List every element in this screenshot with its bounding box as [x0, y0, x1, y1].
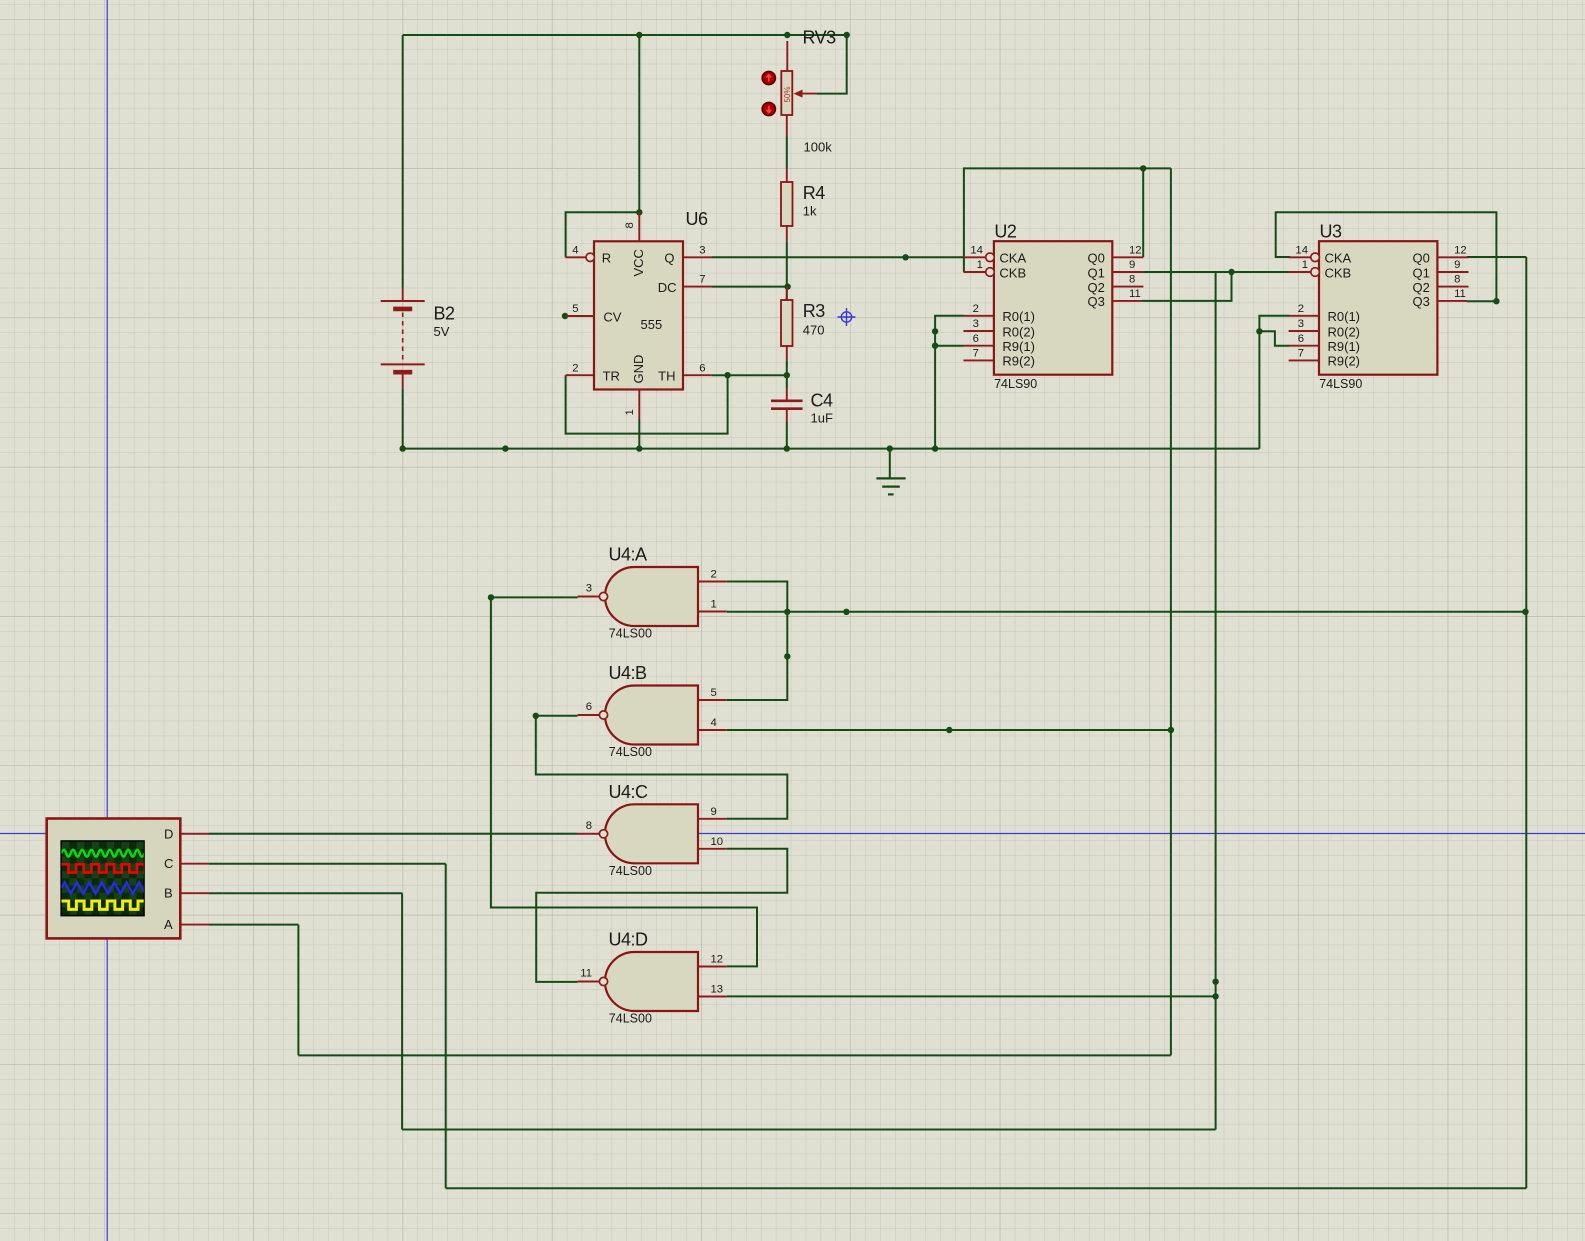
wire R3 bottom to TH node: [786, 360, 788, 375]
junction V7 upper: [1212, 979, 1218, 985]
wire scope A lead: [209, 924, 298, 926]
svg-text:2: 2: [572, 362, 578, 374]
wire scope C lead: [209, 863, 446, 865]
sheet origin axis horizontal: [0, 833, 1585, 835]
wire 555 reset loop: [566, 212, 640, 257]
svg-text:R0(2): R0(2): [1002, 324, 1035, 339]
svg-text:U4:A: U4:A: [609, 545, 648, 565]
wire U4A pin1 row: [727, 611, 1526, 613]
svg-text:1k: 1k: [803, 204, 817, 219]
svg-text:1: 1: [624, 409, 636, 415]
U4:B pin 5: [698, 699, 727, 701]
U3 pin 3 R0(2): [1289, 330, 1319, 332]
wire TH node to C4: [786, 375, 788, 388]
NAND gate U4:B 74LS00 body: [605, 686, 698, 745]
junction bus U6 GND: [636, 445, 642, 451]
svg-text:6: 6: [586, 701, 592, 713]
RV3 decrement button: [762, 102, 775, 115]
junction V7 pin13: [1212, 993, 1218, 999]
junction U2 Q0 drop: [1140, 165, 1146, 171]
junction Q wire: [902, 254, 908, 260]
junction U4B pin6: [533, 713, 539, 719]
svg-text:R0(2): R0(2): [1328, 324, 1361, 339]
screen checkerboard: [62, 842, 144, 915]
potentiometer RV3: [786, 41, 789, 137]
U4:D input pin 11: [578, 981, 600, 983]
svg-text:74LS00: 74LS00: [609, 627, 652, 641]
U2 pin 8 Q2: [1112, 286, 1143, 288]
svg-text:Q3: Q3: [1413, 294, 1430, 309]
svg-text:B: B: [164, 886, 173, 901]
svg-text:4: 4: [711, 717, 717, 729]
svg-text:Q2: Q2: [1413, 280, 1430, 295]
svg-text:12: 12: [711, 954, 724, 966]
junction DC node: [784, 283, 790, 289]
U3 pin 12 Q0: [1437, 256, 1468, 258]
svg-text:12: 12: [1129, 244, 1142, 256]
svg-text:11: 11: [580, 968, 592, 980]
screen trace blue triangle: [62, 882, 149, 893]
U2 pin 11 Q3: [1112, 300, 1142, 302]
svg-text:R3: R3: [803, 301, 825, 321]
junction pin1 row V8: [1522, 609, 1528, 615]
junction RV3 corner: [844, 32, 850, 38]
U3 pin 9 Q1: [1437, 271, 1468, 273]
svg-text:R4: R4: [803, 183, 825, 203]
U2 pin 1 CKB: [964, 271, 986, 273]
U4:D pin 12: [698, 966, 727, 968]
svg-text:1uF: 1uF: [811, 411, 833, 426]
svg-text:7: 7: [973, 348, 979, 360]
U6 pin 1 GND: [638, 390, 640, 420]
svg-text:74LS00: 74LS00: [609, 864, 652, 878]
wire U2 Q1 to U3 CKB: [1143, 271, 1310, 273]
svg-text:8: 8: [624, 222, 636, 228]
U4:C pin 9: [698, 818, 727, 820]
U3 pin 14 CKA: [1289, 256, 1311, 258]
junction bus U2 reset: [932, 445, 938, 451]
node CV stub end: [562, 313, 568, 319]
battery B2: [381, 288, 425, 389]
junction VCC/RV3: [784, 32, 790, 38]
junction bus ground: [887, 445, 893, 451]
svg-text:2: 2: [711, 569, 717, 581]
svg-text:Q0: Q0: [1087, 251, 1104, 266]
wire 555 DC node: [712, 286, 788, 288]
svg-text:R9(1): R9(1): [1002, 339, 1035, 354]
screen trace red square: [62, 864, 160, 872]
svg-text:3: 3: [973, 318, 979, 330]
wire U3 R9(1) jog: [1259, 331, 1289, 345]
wire U2 R9(1) jog: [935, 345, 963, 347]
svg-text:GND: GND: [631, 355, 646, 384]
junction U2 Q1/U3 CKB: [1228, 269, 1234, 275]
U4:B pin 4: [698, 729, 727, 731]
NAND gate U4:A 74LS00 body: [605, 567, 698, 626]
U2 pin 3 R0(2): [964, 330, 994, 332]
svg-text:CV: CV: [603, 309, 621, 324]
svg-text:RV3: RV3: [803, 28, 837, 48]
U6 pin 4 R: [566, 256, 586, 258]
wire ground bus: [403, 448, 1260, 450]
U2 pin 2 R0(1): [964, 315, 994, 317]
screen trace yellow square: [62, 901, 162, 909]
U2 pin 6 R9(1): [964, 345, 994, 347]
svg-text:3: 3: [1298, 318, 1304, 330]
svg-text:Q3: Q3: [1087, 294, 1104, 309]
junction U2 R0(2): [932, 328, 938, 334]
svg-text:7: 7: [1298, 348, 1304, 360]
wire scope C row: [446, 1187, 1527, 1189]
IC U2 74LS90 body: [994, 241, 1112, 375]
U4:C pin 10: [698, 848, 727, 850]
svg-text:12: 12: [1454, 244, 1467, 256]
svg-text:TH: TH: [658, 369, 675, 384]
U6 pin 6 TH: [683, 374, 712, 376]
wire battery negative to bus: [402, 388, 404, 448]
svg-text:1: 1: [1302, 259, 1308, 271]
svg-text:U4:B: U4:B: [609, 663, 648, 683]
U3 pin 8 Q2: [1437, 286, 1468, 288]
junction U3 reset: [1256, 328, 1262, 334]
wire 555 VCC drop: [638, 35, 640, 212]
U4:C input pin 8: [578, 833, 600, 835]
wire U4C pin10 to U4D pin11: [536, 849, 787, 982]
junction bus mid: [502, 445, 508, 451]
svg-text:470: 470: [803, 323, 825, 338]
wire U2 reset net: [935, 316, 963, 449]
svg-text:8: 8: [1454, 274, 1460, 286]
IC U6 555 timer body: [594, 241, 683, 389]
U4:B input pin 6: [578, 714, 600, 716]
oscilloscope pins D C B A: [180, 834, 209, 925]
wire RV3 wiper loop: [817, 35, 847, 94]
svg-text:VCC: VCC: [631, 249, 646, 276]
svg-text:14: 14: [970, 244, 983, 256]
U4:A pin 1: [698, 611, 727, 613]
U6 pin 5 CV: [566, 315, 594, 317]
U3 pin 11 Q3: [1437, 300, 1467, 302]
svg-text:D: D: [164, 827, 173, 842]
wire U4A pin3 lead: [491, 596, 578, 598]
svg-text:CKA: CKA: [1325, 251, 1352, 266]
svg-text:CKB: CKB: [1325, 265, 1352, 280]
svg-text:50%: 50%: [783, 86, 792, 102]
svg-text:7: 7: [699, 274, 705, 286]
junction pin1 row mid: [843, 609, 849, 615]
wire R4 to R3 node: [786, 242, 788, 300]
wire 555 Q to U2 CKA: [712, 256, 964, 258]
svg-text:C: C: [164, 856, 173, 871]
svg-text:C4: C4: [811, 391, 833, 411]
U6 pin 2 TR: [566, 374, 594, 376]
resistor R3: [786, 287, 788, 361]
wire scope B drop: [401, 893, 403, 1129]
junction TR-TH: [724, 372, 730, 378]
svg-text:100k: 100k: [804, 140, 833, 155]
wire U2 Q3 jog: [1142, 272, 1232, 301]
U4:A input pin 3: [578, 596, 600, 598]
U2 pin 14 CKA: [964, 256, 986, 258]
svg-text:B2: B2: [434, 304, 456, 324]
capacitor C4: [786, 388, 788, 422]
resistor R4: [786, 168, 788, 241]
junction TH-R3-C4: [784, 372, 790, 378]
svg-text:9: 9: [1129, 259, 1135, 271]
U6 pin 3 Q: [683, 256, 712, 258]
wire U4D pin13 row: [727, 995, 1216, 997]
svg-text:U2: U2: [994, 222, 1016, 242]
svg-text:TR: TR: [603, 369, 620, 384]
wire scope D lead to U4C pin8: [209, 833, 578, 835]
wire 555 TR-TH loop: [566, 375, 728, 433]
wire U2 CKB top loop: [964, 168, 1171, 272]
svg-text:2: 2: [1298, 303, 1304, 315]
wire net V6 vertical to A row: [1170, 168, 1172, 1055]
wire U4B pin6 lead: [536, 715, 578, 717]
wire U4B pin4 row: [727, 729, 1171, 731]
svg-text:R9(2): R9(2): [1328, 354, 1361, 369]
NAND gate U4:D 74LS00 body: [605, 952, 698, 1011]
junction U2 R9(1): [932, 343, 938, 349]
svg-text:Q1: Q1: [1087, 265, 1104, 280]
svg-text:6: 6: [973, 333, 979, 345]
wire C4 to ground bus: [786, 422, 788, 449]
IC U3 74LS90 body: [1319, 241, 1437, 375]
wire U4B pin6 to U4C pin9: [536, 716, 788, 819]
wire RV3 to R4: [786, 137, 788, 169]
wire ground tap: [889, 449, 891, 479]
svg-text:R0(1): R0(1): [1002, 309, 1035, 324]
ground symbol: [876, 478, 905, 494]
wire scope B row: [402, 1129, 1216, 1131]
NAND gate U4:C 74LS00 body: [605, 804, 698, 863]
junction pin4 row mid: [946, 727, 952, 733]
svg-text:Q2: Q2: [1087, 280, 1104, 295]
svg-text:13: 13: [711, 984, 724, 996]
svg-text:U4:C: U4:C: [609, 782, 649, 802]
svg-text:R9(2): R9(2): [1002, 354, 1035, 369]
junction U6 pin8: [636, 209, 642, 215]
RV3 increment button: [762, 71, 775, 84]
wire 555 TH row: [712, 374, 788, 376]
svg-text:74LS00: 74LS00: [609, 1012, 652, 1026]
svg-text:A: A: [164, 917, 173, 932]
svg-text:74LS90: 74LS90: [1319, 377, 1362, 391]
svg-text:11: 11: [1129, 288, 1141, 300]
U4:A pin 2: [698, 581, 727, 583]
junction bus C4: [784, 445, 790, 451]
U2 pin 7 R9(2): [964, 359, 994, 361]
wire net V7 vertical to B row: [1215, 272, 1217, 1130]
wire scope A row: [298, 1054, 1171, 1056]
screen trace green sine: [62, 850, 145, 857]
svg-text:U3: U3: [1320, 222, 1342, 242]
wire U3 reset net: [1259, 316, 1289, 449]
svg-text:U6: U6: [686, 209, 708, 229]
svg-text:R9(1): R9(1): [1328, 339, 1361, 354]
oscilloscope box: [47, 819, 181, 939]
svg-text:R: R: [602, 251, 611, 266]
svg-text:8: 8: [1129, 274, 1135, 286]
svg-text:3: 3: [586, 583, 592, 595]
svg-text:5: 5: [711, 687, 717, 699]
U3 pin 2 R0(1): [1289, 315, 1319, 317]
wire VCC top bus: [403, 34, 847, 36]
wire battery positive vertical: [402, 35, 404, 288]
svg-text:DC: DC: [658, 280, 677, 295]
junction bus battery: [400, 445, 406, 451]
wire scope B lead: [209, 892, 402, 894]
oscilloscope screen: [61, 841, 144, 916]
wire U3 CKA loop: [1276, 212, 1497, 301]
svg-text:6: 6: [1298, 333, 1304, 345]
U2 pin 12 Q0: [1112, 256, 1143, 258]
svg-text:74LS00: 74LS00: [609, 745, 652, 759]
svg-text:R0(1): R0(1): [1328, 309, 1361, 324]
U6 pin 7 DC: [683, 286, 712, 288]
node marker (blue crosshair): [838, 308, 856, 326]
svg-text:Q1: Q1: [1413, 265, 1430, 280]
svg-text:1: 1: [977, 259, 983, 271]
svg-text:U4:D: U4:D: [609, 930, 649, 950]
U6 pin 8 VCC: [638, 212, 640, 241]
svg-text:74LS90: 74LS90: [994, 377, 1037, 391]
svg-text:CKB: CKB: [999, 265, 1026, 280]
svg-text:Q: Q: [664, 251, 674, 266]
svg-text:9: 9: [711, 806, 717, 818]
svg-text:2: 2: [973, 303, 979, 315]
svg-text:1: 1: [711, 599, 717, 611]
svg-text:4: 4: [572, 244, 578, 256]
RV3 wiper arrow: [799, 93, 817, 95]
svg-text:Q0: Q0: [1413, 251, 1430, 266]
junction U4A pin3: [488, 594, 494, 600]
wire 555 GND to bus: [638, 420, 640, 449]
junction V3 mid: [784, 653, 790, 659]
svg-text:14: 14: [1295, 244, 1308, 256]
U3 pin 6 R9(1): [1289, 345, 1319, 347]
svg-text:8: 8: [586, 820, 592, 832]
svg-text:5: 5: [572, 303, 578, 315]
wire net V8 vertical to C row: [1525, 257, 1527, 1188]
U3 pin 7 R9(2): [1289, 359, 1319, 361]
junction VCC/U6: [636, 32, 642, 38]
wire U4A pin2 to U4B pin5: [727, 582, 788, 701]
junction U3 CKA/Q3: [1493, 298, 1499, 304]
junction pin4 row V6: [1168, 727, 1174, 733]
wire U3 Q0 lead: [1467, 256, 1527, 258]
svg-text:5V: 5V: [434, 324, 450, 339]
U3 pin 1 CKB: [1289, 271, 1311, 273]
wire U2 Q0 drop: [1142, 168, 1144, 257]
wire U4A pin3 to U4D pin12: [491, 597, 757, 966]
svg-text:11: 11: [1454, 288, 1466, 300]
wire scope A drop: [297, 925, 299, 1056]
U2 pin 9 Q1: [1112, 271, 1143, 273]
svg-text:9: 9: [1454, 259, 1460, 271]
wire U3 Q3 lead: [1467, 300, 1497, 302]
wire scope C drop: [445, 864, 447, 1189]
svg-text:CKA: CKA: [999, 251, 1026, 266]
svg-text:555: 555: [641, 317, 663, 332]
svg-text:3: 3: [699, 244, 705, 256]
junction pin1 row/V3: [784, 609, 790, 615]
U4:D pin 13: [698, 996, 727, 998]
svg-text:6: 6: [699, 362, 705, 374]
sheet origin axis vertical: [106, 0, 108, 1241]
svg-text:10: 10: [711, 836, 724, 848]
